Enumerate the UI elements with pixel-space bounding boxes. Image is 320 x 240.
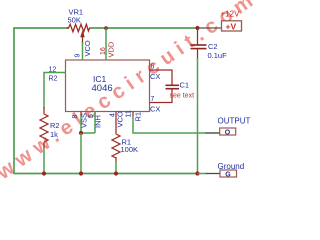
svg-text:see text: see text: [170, 93, 195, 100]
capacitor C2 0.1uF: [191, 28, 228, 60]
svg-text:11: 11: [126, 110, 133, 117]
svg-text:O: O: [225, 129, 231, 136]
svg-text:VDD: VDD: [107, 41, 116, 57]
svg-text:1k: 1k: [50, 130, 58, 139]
svg-text:R1: R1: [134, 112, 143, 122]
svg-text:VCO: VCO: [116, 111, 125, 127]
svg-text:6: 6: [151, 64, 155, 71]
watermark: [0, 0, 262, 185]
svg-text:CX: CX: [150, 72, 160, 81]
pin 11 R1 wire to output: [126, 110, 206, 133]
svg-text:0.1uF: 0.1uF: [208, 51, 228, 60]
svg-text:G: G: [225, 171, 231, 178]
pin 9 VCO wire: [75, 40, 93, 60]
op-amp U1 : IC1 4046 body: [66, 60, 150, 112]
svg-text:4046: 4046: [92, 83, 113, 94]
wire R2 to ground rail: [42, 148, 46, 176]
wire bottom ground rail: [14, 173, 198, 175]
potentiometer VR1 50K with wiper arrow: [67, 8, 93, 44]
terminal OUTPUT O: [205, 117, 251, 137]
wire left vertical: [13, 27, 15, 174]
wire C2 to ground rail: [195, 58, 199, 176]
pin 12 R2 wire: [44, 67, 66, 109]
power +V +12V terminal: [198, 10, 242, 32]
wire pin8 to ground rail: [79, 133, 83, 176]
pin 8 VSS wire: [72, 112, 89, 134]
svg-text:9: 9: [75, 54, 82, 58]
svg-text:CX: CX: [150, 105, 160, 114]
pin 7 CX wire: [150, 89, 173, 114]
resistor R2 1k: [40, 107, 60, 149]
svg-text:C2: C2: [208, 42, 218, 51]
wire top rail left segment: [14, 27, 69, 29]
svg-text:+V: +V: [226, 22, 237, 32]
svg-text:Ground: Ground: [218, 162, 245, 171]
pin 5 INH wire: [88, 112, 103, 134]
svg-text:+12V: +12V: [221, 10, 241, 19]
node supply junction: [195, 26, 199, 30]
svg-text:OUTPUT: OUTPUT: [218, 117, 251, 126]
svg-text:50K: 50K: [68, 16, 81, 25]
junction pin16 tick: [104, 26, 108, 30]
pin 4 VCO wire: [110, 111, 125, 134]
wire R1 to ground rail: [114, 161, 118, 176]
svg-text:C1: C1: [180, 81, 190, 90]
svg-text:INH: INH: [94, 115, 103, 128]
svg-text:7: 7: [151, 96, 155, 103]
pin 6 CX wire: [150, 64, 173, 86]
svg-text:R2: R2: [49, 76, 58, 83]
svg-text:100K: 100K: [121, 145, 139, 154]
resistor R1 100K: [112, 134, 138, 162]
node VSS-INH junction: [79, 131, 95, 135]
capacitor C1: [166, 81, 195, 100]
svg-text:12: 12: [49, 67, 57, 74]
wire top rail right segment: [91, 27, 198, 29]
pin 16 VDD wire: [100, 28, 116, 60]
svg-text:8: 8: [72, 115, 79, 119]
terminal Ground G: [198, 162, 245, 178]
svg-text:VCO: VCO: [83, 40, 92, 56]
